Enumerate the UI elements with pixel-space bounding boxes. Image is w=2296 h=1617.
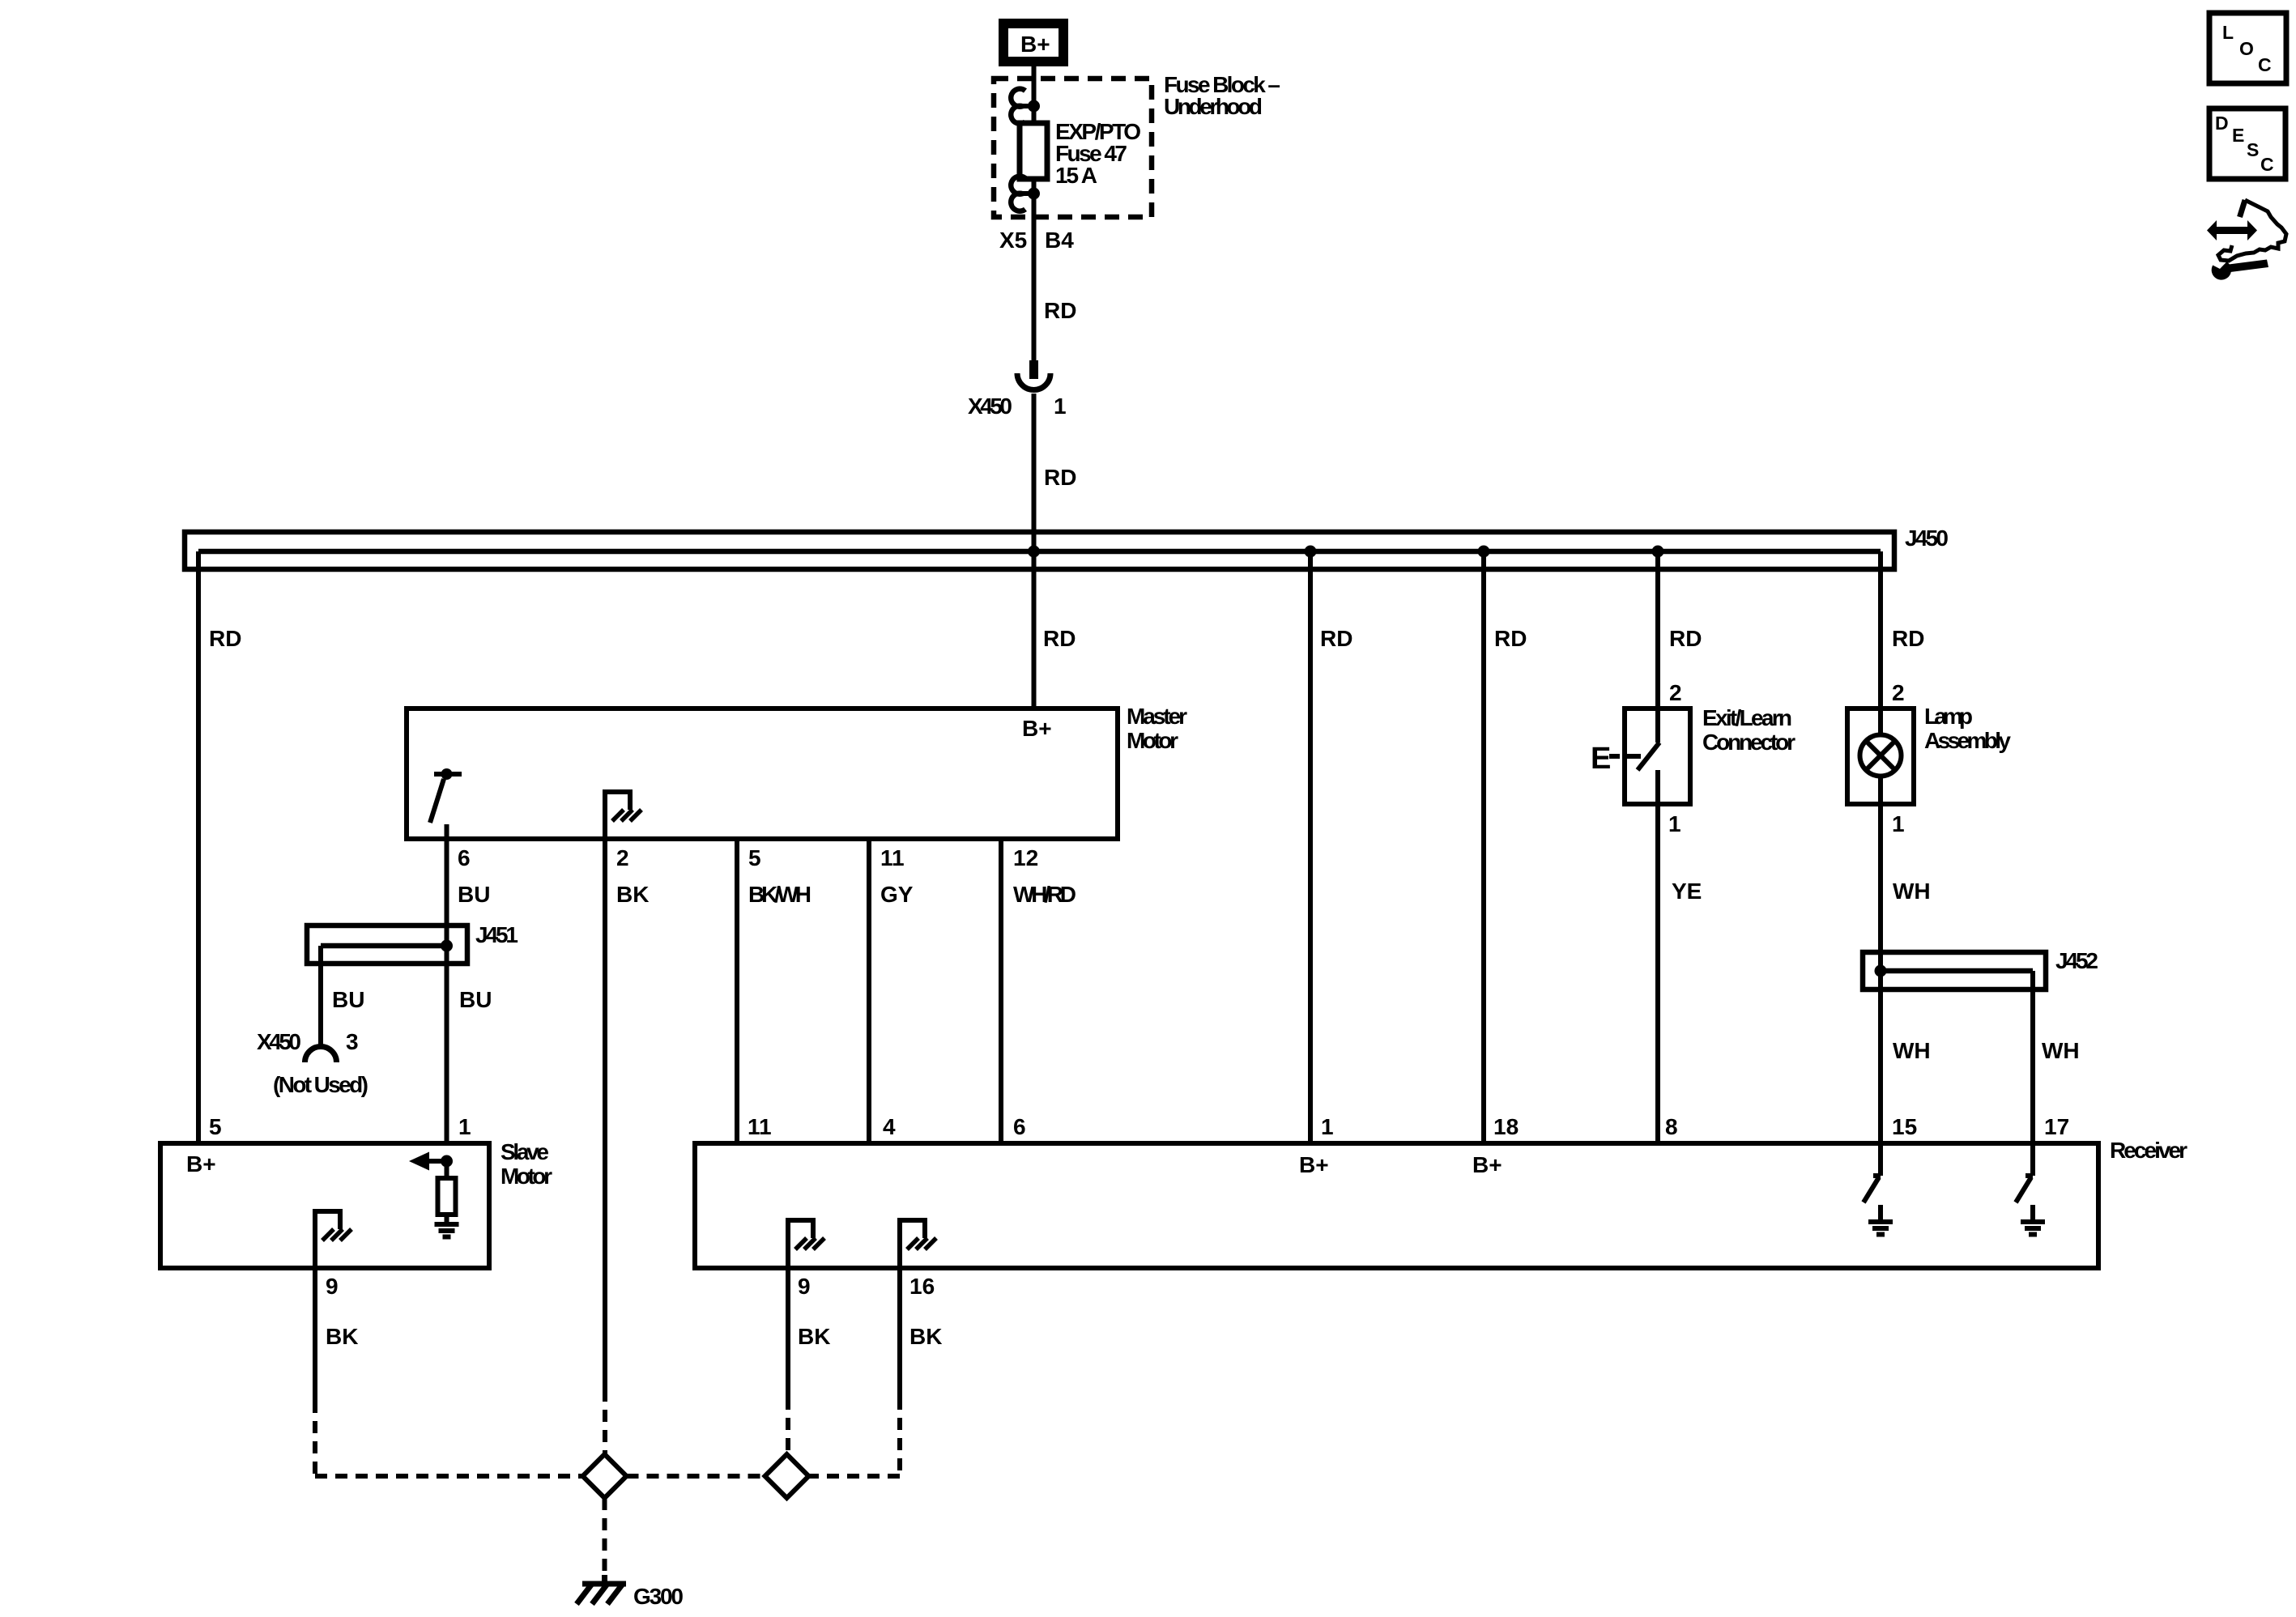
ground G300: [577, 1575, 626, 1604]
svg-text:BU: BU: [332, 987, 364, 1012]
svg-text:BK: BK: [798, 1324, 830, 1349]
wire GY master pin 11 to receiver pin 4: [867, 839, 871, 1143]
svg-text:15 A: 15 A: [1055, 163, 1097, 188]
svg-text:YE: YE: [1672, 879, 1702, 904]
svg-text:BK: BK: [326, 1324, 358, 1349]
wire B+ to fuse: [1032, 66, 1037, 106]
master motor internal switch: [430, 768, 462, 839]
svg-text:9: 9: [326, 1274, 339, 1299]
svg-text:J450: J450: [1905, 526, 1949, 551]
node dot J452: [1875, 965, 1887, 977]
node dot bus/exit-learn: [1652, 546, 1664, 558]
LOC legend box: [2209, 13, 2286, 83]
svg-text:WH: WH: [2042, 1038, 2080, 1063]
wire RD bus to exit/learn connector: [1655, 551, 1660, 709]
DESC legend box: [2209, 109, 2285, 179]
receiver box: [695, 1143, 2098, 1268]
svg-text:2: 2: [1892, 680, 1905, 705]
svg-text:Lamp: Lamp: [1924, 704, 1973, 729]
svg-text:BK/WH: BK/WH: [748, 882, 811, 907]
svg-text:6: 6: [458, 845, 471, 870]
label Fuse Block Underhood: [1164, 72, 1280, 119]
svg-text:X450: X450: [968, 394, 1012, 419]
svg-text:E: E: [2232, 125, 2244, 146]
master motor box: [407, 709, 1118, 839]
dashed wire receiver 16 to splice: [809, 1474, 901, 1479]
dashed wire BK receiver pin 9 down: [786, 1398, 790, 1454]
terminal clip bottom: [1011, 177, 1025, 211]
splice pack J450 outer box: [185, 532, 1894, 569]
svg-text:1: 1: [1321, 1114, 1334, 1139]
splice diamond S2: [765, 1454, 809, 1498]
svg-text:S: S: [2247, 139, 2259, 160]
svg-text:RD: RD: [209, 626, 241, 651]
svg-text:RD: RD: [1044, 298, 1076, 323]
svg-text:8: 8: [1665, 1114, 1678, 1139]
svg-text:GY: GY: [880, 882, 914, 907]
svg-text:17: 17: [2044, 1114, 2069, 1139]
service icon wrench: [2212, 260, 2268, 280]
wire BU J451 to X450-3: [318, 946, 323, 1048]
svg-text:RD: RD: [1044, 465, 1076, 490]
svg-text:B+: B+: [1020, 32, 1050, 57]
svg-text:C: C: [2258, 54, 2272, 75]
wire RD bus to receiver pin 18: [1481, 551, 1486, 1143]
svg-text:D: D: [2215, 113, 2229, 134]
splice diamond S1: [583, 1454, 627, 1498]
svg-text:1: 1: [1668, 811, 1681, 836]
splice J452 box: [1863, 952, 2046, 989]
svg-text:RD: RD: [1043, 626, 1076, 651]
splice pack J450 bus bar: [198, 549, 1881, 555]
node dot bus/receiver1: [1305, 546, 1317, 558]
wire X450 to bus: [1032, 394, 1037, 551]
svg-text:X450: X450: [257, 1029, 301, 1054]
svg-text:16: 16: [909, 1274, 935, 1299]
svg-text:BK: BK: [616, 882, 649, 907]
svg-text:Master: Master: [1127, 704, 1187, 729]
fuse EXP/PTO Fuse 47 15A: [1032, 106, 1037, 194]
svg-text:1: 1: [1054, 394, 1067, 419]
node dot bus/receiver18: [1478, 546, 1490, 558]
wire WH J452 to receiver pin 15: [1878, 971, 1883, 1143]
svg-text:O: O: [2239, 38, 2254, 59]
dashed wire splice to splice: [627, 1474, 765, 1479]
svg-text:2: 2: [616, 845, 629, 870]
svg-text:B4: B4: [1045, 228, 1074, 253]
svg-text:Motor: Motor: [1127, 728, 1178, 753]
splice J452 bar: [1881, 968, 2033, 974]
service icon double arrow: [2207, 220, 2257, 240]
wire WH/RD master pin 12 to receiver pin 6: [999, 839, 1003, 1143]
dashed wire BK receiver pin 16 down: [897, 1398, 902, 1474]
dashed wire slave to splice: [315, 1474, 583, 1479]
svg-text:WH: WH: [1893, 879, 1931, 904]
svg-text:4: 4: [883, 1114, 896, 1139]
wire BK receiver pin 9 solid part: [786, 1268, 790, 1398]
wire BK/WH master pin 5 to receiver pin 11: [735, 839, 739, 1143]
svg-text:5: 5: [209, 1114, 222, 1139]
dashed wire BK master pin 2 down: [603, 1389, 607, 1454]
exit/learn connector box: [1625, 709, 1690, 804]
wire BK slave pin 9 solid part: [313, 1268, 317, 1401]
wire WH J452 to receiver pin 17: [2030, 971, 2035, 1143]
svg-text:G300: G300: [633, 1584, 684, 1609]
svg-text:Receiver: Receiver: [2110, 1138, 2187, 1163]
wire BK receiver pin 16 solid part: [897, 1268, 902, 1398]
receiver internal switch pin 17: [2016, 1143, 2045, 1235]
wire BU master pin 6 to slave pin 1: [445, 839, 449, 1143]
wire fuse to X450: [1032, 194, 1037, 360]
slave motor earth ground: [435, 1224, 459, 1237]
svg-text:Underhood: Underhood: [1164, 94, 1263, 119]
master motor internal ground: [603, 792, 641, 839]
dashed wire splice to G300: [603, 1498, 607, 1575]
svg-text:J451: J451: [475, 922, 518, 947]
svg-text:9: 9: [798, 1274, 811, 1299]
svg-text:WH/RD: WH/RD: [1013, 882, 1076, 907]
svg-text:WH: WH: [1893, 1038, 1931, 1063]
svg-text:J452: J452: [2055, 948, 2098, 973]
wire RD bus to lamp assembly: [1878, 551, 1883, 709]
svg-text:Assembly: Assembly: [1924, 728, 2011, 753]
svg-text:B+: B+: [186, 1151, 216, 1177]
node dot J451: [441, 940, 453, 952]
svg-text:B+: B+: [1472, 1152, 1502, 1177]
junction dot: [1028, 188, 1040, 200]
svg-text:1: 1: [458, 1114, 471, 1139]
svg-text:Exit/Learn: Exit/Learn: [1702, 705, 1792, 730]
slave motor internal arrow contact: [409, 1152, 453, 1171]
splice J451 bar: [321, 943, 447, 949]
slave motor box: [160, 1143, 489, 1268]
svg-text:Connector: Connector: [1702, 730, 1795, 755]
svg-text:11: 11: [880, 845, 905, 870]
junction dot: [1028, 100, 1040, 113]
receiver internal chassis ground pin 9: [786, 1220, 824, 1268]
wire RD bus to receiver pin 1: [1308, 551, 1313, 1143]
svg-text:B+: B+: [1022, 716, 1052, 741]
svg-text:BU: BU: [458, 882, 490, 907]
svg-text:RD: RD: [1494, 626, 1527, 651]
svg-text:15: 15: [1892, 1114, 1917, 1139]
SECTION: bottom grounds: [315, 1389, 900, 1575]
receiver internal chassis ground pin 16: [897, 1220, 936, 1268]
svg-text:12: 12: [1013, 845, 1038, 870]
terminal clip top: [1011, 89, 1025, 124]
lamp assembly box: [1847, 709, 1914, 804]
svg-text:RD: RD: [1892, 626, 1924, 651]
svg-text:BK: BK: [909, 1324, 942, 1349]
connector X450 cavity 3 not used: [305, 1047, 337, 1063]
svg-text:E: E: [1591, 742, 1611, 776]
svg-text:6: 6: [1013, 1114, 1026, 1139]
svg-text:RD: RD: [1669, 626, 1702, 651]
wire YE exit/learn to receiver pin 8: [1655, 804, 1660, 1143]
fuse block underhood dashed box: [994, 79, 1152, 217]
exit/learn internal switch: [1625, 709, 1659, 804]
wire BK master pin 2 (solid part): [603, 839, 607, 1389]
lamp symbol: [1860, 709, 1902, 777]
svg-text:2: 2: [1669, 680, 1682, 705]
E node marker: [1591, 742, 1620, 776]
dashed wire BK slave pin 9 down: [313, 1401, 317, 1474]
svg-text:B+: B+: [1299, 1152, 1329, 1177]
svg-text:(Not Used): (Not Used): [273, 1072, 368, 1097]
battery feed B+ symbol: [999, 19, 1068, 66]
service icon vehicle outline: [2218, 200, 2286, 261]
svg-text:1: 1: [1892, 811, 1905, 836]
svg-text:C: C: [2260, 154, 2274, 175]
svg-text:RD: RD: [1320, 626, 1352, 651]
receiver internal switch pin 15: [1864, 1143, 1893, 1235]
connector X450 pin 1: [1017, 360, 1050, 390]
svg-text:11: 11: [748, 1114, 772, 1139]
splice J451 box: [307, 926, 467, 964]
wire RD bus to slave B+ pin 5: [196, 551, 201, 1143]
svg-text:L: L: [2222, 22, 2234, 43]
slave motor internal chassis ground: [313, 1211, 351, 1268]
wire WH lamp to J452: [1878, 776, 1883, 971]
svg-text:X5: X5: [999, 228, 1027, 253]
svg-text:5: 5: [748, 845, 761, 870]
wire RD bus to master B+: [1032, 551, 1037, 709]
svg-text:Slave: Slave: [501, 1139, 549, 1164]
node dot bus/master: [1028, 546, 1040, 558]
svg-text:Motor: Motor: [501, 1164, 552, 1189]
svg-text:3: 3: [346, 1029, 359, 1054]
slave motor internal resistor: [438, 1161, 456, 1224]
svg-text:18: 18: [1493, 1114, 1519, 1139]
svg-text:BU: BU: [459, 987, 492, 1012]
